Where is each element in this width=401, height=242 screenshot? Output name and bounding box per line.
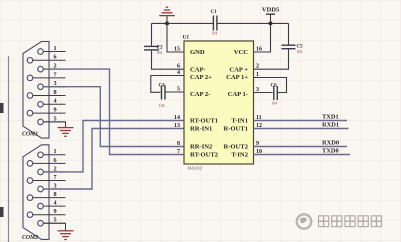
svg-text:RR-IN1: RR-IN1 (190, 126, 212, 133)
svg-text:TXD0: TXD0 (322, 147, 339, 154)
svg-text:C2: C2 (157, 46, 164, 51)
wire U1 pin3 CAP 1- to C6 (254, 92, 273, 94)
capacitor C5 (288, 23, 290, 45)
connector COM2 (DB9) (23, 145, 49, 240)
svg-text:4: 4 (177, 70, 180, 76)
svg-text:C5: C5 (297, 44, 304, 49)
junction dot GND stem (165, 22, 168, 25)
svg-text:6: 6 (53, 54, 56, 61)
wire VDD5 down to U1 pin16 VCC (254, 23, 271, 52)
svg-text:8: 8 (53, 191, 56, 198)
wire COM1 pin2 to U1 pin7 RT-OUT2 (44, 69, 185, 154)
svg-text:4: 4 (53, 200, 56, 207)
wire C5 bottom to U1 pin2 CAP + (254, 49, 289, 69)
ground symbol under COM1 (58, 128, 74, 137)
svg-text:T-IN1: T-IN1 (231, 118, 248, 125)
svg-text:GND: GND (190, 49, 205, 56)
svg-text:CAP 2+: CAP 2+ (190, 74, 212, 81)
junction dot VDD5 (269, 22, 272, 25)
svg-text:1: 1 (53, 45, 56, 52)
U1 left pin names (190, 49, 219, 159)
capacitor C2 (151, 23, 153, 46)
capacitor C6 (274, 86, 278, 100)
svg-text:C4: C4 (159, 83, 166, 88)
svg-text:104: 104 (159, 104, 165, 108)
svg-text:6: 6 (177, 64, 180, 70)
svg-text:8: 8 (177, 141, 180, 147)
svg-text:7: 7 (177, 149, 180, 155)
svg-text:16: 16 (256, 46, 262, 52)
op-amp/IC U1 MAX202 body (184, 41, 254, 164)
svg-text:U1: U1 (183, 35, 190, 41)
wire U1 pin14 RT-OUT1 to COM2 pin2 (44, 121, 185, 172)
svg-text:15: 15 (174, 46, 180, 52)
svg-text:COM1: COM1 (22, 131, 38, 137)
U1 left pin numbers (174, 46, 180, 154)
wire U1 pin11 to TXD1 (254, 120, 348, 122)
wire GND net: C2 top / ground / C1 left (152, 22, 214, 24)
svg-text:8: 8 (53, 89, 56, 96)
svg-text:6: 6 (53, 157, 56, 164)
svg-text:CAP 1-: CAP 1- (228, 91, 248, 98)
svg-text:7: 7 (53, 174, 56, 181)
svg-text:R-OUT2: R-OUT2 (223, 144, 248, 151)
svg-text:TXD1: TXD1 (322, 113, 339, 120)
svg-text:CAP 1+: CAP 1+ (226, 74, 248, 81)
svg-text:9: 9 (53, 208, 56, 215)
wire C4 to U1 pin5 CAP 2- (165, 91, 184, 93)
svg-text:4: 4 (53, 98, 56, 105)
svg-text:5: 5 (53, 115, 56, 122)
svg-text:C6: C6 (271, 83, 278, 88)
ground symbol top (GND net) (166, 15, 168, 23)
svg-text:104: 104 (272, 102, 278, 106)
wire U1 pin4 CAP 2+ to C4 (151, 76, 184, 93)
wire U1 pin13 RR-IN1 to COM2 pin3 (44, 129, 185, 190)
svg-text:104: 104 (297, 50, 303, 54)
wire COM2 pin5 to ground (44, 223, 66, 231)
wire U1 pin9 to RXD0 (254, 146, 348, 148)
svg-text:CAP-: CAP- (190, 66, 206, 73)
wire C1 right to VDD5 junction and C5 top (217, 22, 289, 24)
wire U1 pin12 to RXD1 (254, 128, 349, 130)
svg-text:CAP +: CAP + (229, 66, 248, 73)
wire COM1 pin5 to ground (44, 122, 66, 128)
capacitor C4 (162, 86, 166, 100)
svg-text:RT-OUT1: RT-OUT1 (190, 118, 218, 125)
svg-text:2: 2 (256, 64, 259, 70)
svg-text:7: 7 (53, 71, 56, 78)
svg-text:COM2: COM2 (22, 235, 38, 241)
ground symbol under COM2 (58, 231, 74, 240)
svg-text:R-OUT1: R-OUT1 (223, 126, 248, 133)
wire ground down to U1 pin15 GND (167, 23, 184, 52)
connector COM1 (DB9) (23, 42, 49, 139)
svg-text:VDD5: VDD5 (262, 7, 280, 14)
svg-text:RR-IN2: RR-IN2 (190, 144, 213, 151)
svg-text:5: 5 (53, 217, 56, 224)
svg-text:14: 14 (174, 115, 180, 121)
svg-text:C1: C1 (211, 10, 218, 15)
wire C2 bottom to U1 pin6 CAP- (152, 50, 185, 69)
wire C6 up to U1 pin1 CAP 1+ (254, 78, 287, 93)
svg-text:1: 1 (256, 72, 259, 78)
svg-text:VCC: VCC (234, 49, 249, 56)
svg-text:3: 3 (256, 87, 259, 93)
svg-text:RXD0: RXD0 (322, 139, 339, 146)
wire COM1 pin3 to U1 pin8 RR-IN2 (44, 87, 185, 147)
svg-text:MAX202: MAX202 (187, 165, 203, 170)
svg-text:104: 104 (157, 51, 163, 55)
svg-text:5: 5 (177, 86, 180, 92)
svg-text:1: 1 (53, 148, 56, 155)
svg-text:104: 104 (212, 32, 218, 36)
wire U1 pin10 to TXD0 (254, 154, 351, 156)
U1 right pin names (223, 49, 248, 159)
svg-text:9: 9 (53, 107, 56, 114)
U1 right pin numbers (256, 46, 262, 154)
svg-text:CAP 2-: CAP 2- (190, 91, 210, 98)
svg-text:T-IN2: T-IN2 (231, 152, 248, 159)
svg-text:13: 13 (174, 123, 180, 129)
capacitor C1 (213, 16, 217, 31)
svg-text:RT-OUT2: RT-OUT2 (190, 152, 219, 159)
svg-text:RXD1: RXD1 (322, 121, 339, 128)
